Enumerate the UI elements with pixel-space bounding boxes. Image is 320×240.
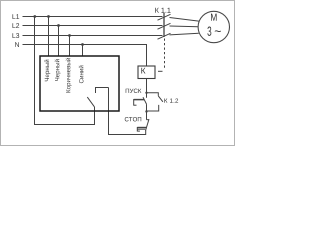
label STOP [125, 117, 141, 121]
wire pin1 drop from L1 [48, 17, 50, 57]
pushbutton STOP blade [146, 119, 150, 131]
sensor device box [40, 56, 119, 111]
contactor coil K box [138, 66, 155, 79]
wire coil K to start node [146, 79, 148, 98]
label 3 [207, 26, 211, 35]
wire L2 bus [23, 25, 163, 27]
pushbutton STOP seat tick [147, 119, 149, 121]
label wire Коричневый [66, 58, 72, 92]
pushbutton STOP actuator stem [137, 127, 146, 129]
contact K1.2 branch top [147, 93, 159, 96]
label wire Синий [79, 66, 84, 84]
wire contact to motor W [170, 33, 199, 35]
label wire Черный 1 [44, 60, 50, 81]
node stop junction [145, 110, 147, 112]
label wire Черный 2 [55, 59, 61, 80]
wire contact to motor U [170, 18, 199, 22]
label K 1.1 [155, 8, 170, 13]
dashed mechanical link to coil K [164, 39, 166, 71]
node L2 tap pin2 [57, 24, 60, 27]
contact K1.2 blade [158, 96, 163, 102]
pushbutton PUSK blade [143, 97, 147, 104]
label K1.2 [164, 98, 178, 102]
motor M 3~ circle [198, 11, 229, 42]
wire pin4 drop from N [82, 45, 84, 57]
node L1 tap left [33, 15, 36, 18]
wire pin3 drop from L3 [69, 36, 71, 57]
wire pin2 drop from L2 [58, 26, 60, 57]
pushbutton STOP actuator cap [137, 128, 145, 130]
contact group K1.1 mechanical link bar [163, 13, 165, 37]
wire contact to motor V [170, 25, 199, 28]
label L2 [13, 23, 20, 28]
label PUSK [126, 89, 142, 93]
wire N bus feeding coil K [23, 45, 147, 67]
wire L1 bus [23, 16, 163, 18]
dash stub to K box [158, 70, 163, 72]
label K coil [141, 68, 145, 74]
contact K1.2 branch bottom [147, 105, 159, 111]
contact K1.1 blade phase L2 [158, 23, 171, 29]
wire L3 bus [23, 35, 163, 37]
contact K1.1 blade phase L3 [158, 33, 171, 39]
wire L1 left drop to sensor switch [35, 17, 95, 125]
frame border [1, 1, 235, 146]
label N [15, 42, 19, 47]
label L1 [13, 14, 20, 19]
sensor internal switch contact [87, 88, 108, 107]
contact K1.1 blade phase L1 [158, 14, 171, 20]
node N tap pin4 [81, 43, 84, 46]
label ~ [215, 30, 221, 32]
node L1 tap pin1 [47, 15, 50, 18]
pushbutton PUSK actuator stem [134, 99, 145, 101]
node start junction [145, 92, 147, 94]
wire start node to stop node [146, 104, 148, 120]
label L3 [13, 33, 20, 38]
node L3 tap pin3 [68, 34, 71, 37]
wire sensor switch output to STOP button [109, 88, 146, 135]
pushbutton PUSK actuator cap [133, 99, 135, 106]
label M [211, 14, 217, 21]
